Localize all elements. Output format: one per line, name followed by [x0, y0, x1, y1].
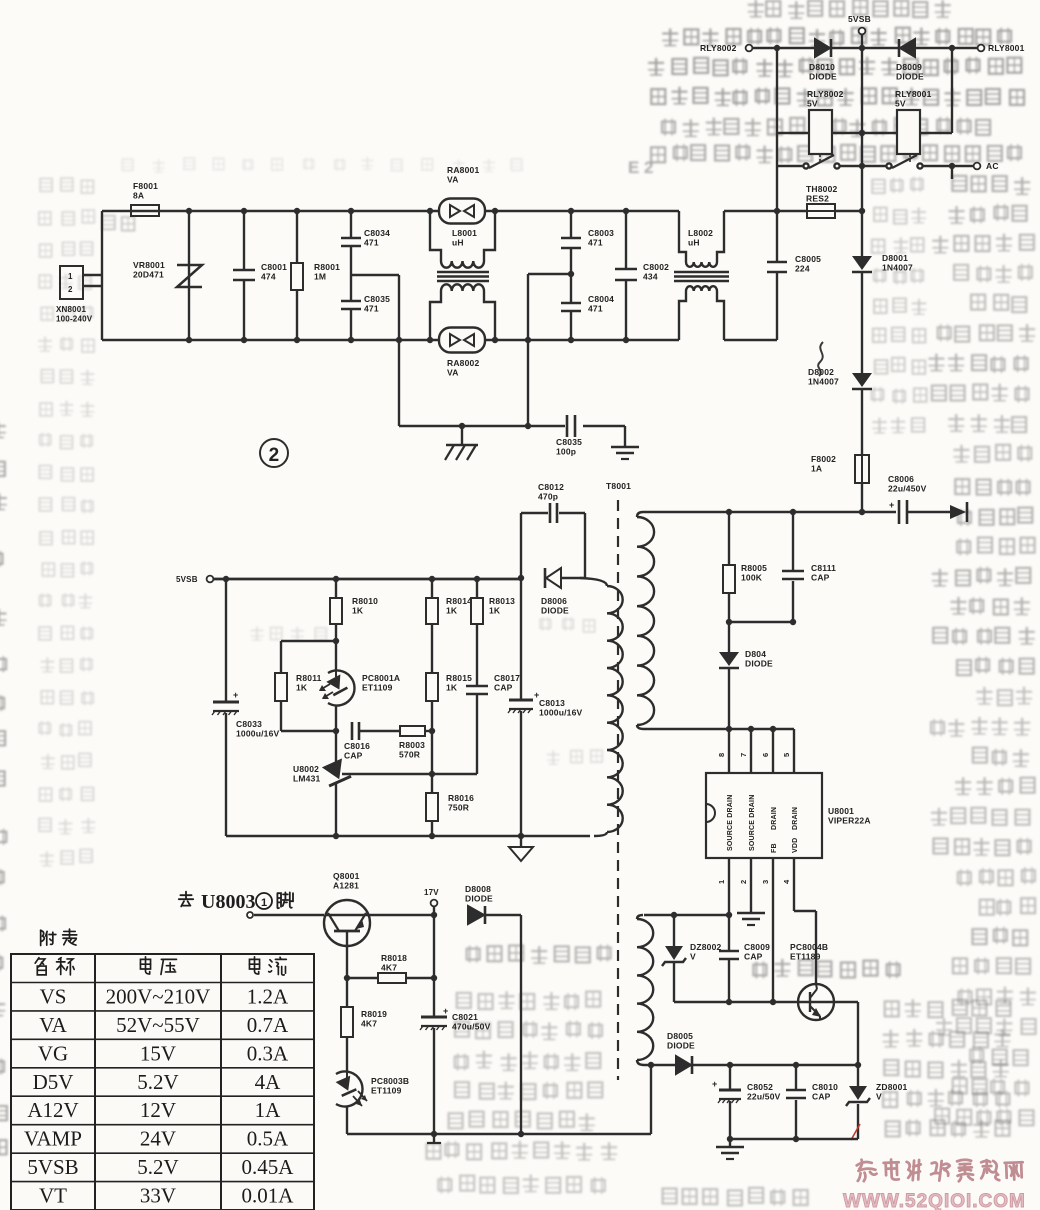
wire: aux return to low side	[650, 1065, 652, 1134]
svg-text:PC8004B: PC8004B	[790, 942, 828, 952]
ground	[729, 1139, 731, 1146]
svg-text:ET1109: ET1109	[371, 1086, 402, 1096]
svg-text:A1281: A1281	[333, 881, 359, 891]
relay contact RLY8002	[819, 154, 821, 164]
svg-text:+: +	[233, 690, 238, 700]
svg-text:U8003: U8003	[201, 891, 255, 913]
svg-text:VAMP: VAMP	[24, 1127, 82, 1151]
capacitor C8010 CAP	[795, 1065, 797, 1089]
svg-text:C8006: C8006	[888, 474, 914, 484]
svg-text:CAP: CAP	[812, 1092, 831, 1102]
svg-text:20D471: 20D471	[133, 270, 164, 280]
svg-text:DIODE: DIODE	[541, 606, 569, 616]
svg-text:C8012: C8012	[538, 482, 564, 492]
diode D8010	[815, 39, 830, 57]
svg-text:uH: uH	[688, 238, 700, 248]
wire: 5VSB vertical with rectifier chain	[861, 48, 863, 256]
svg-text:VA: VA	[39, 1013, 67, 1037]
svg-text:1: 1	[68, 272, 73, 281]
svg-text:RLY8001: RLY8001	[988, 43, 1025, 53]
svg-text:U8002: U8002	[293, 764, 319, 774]
svg-text:471: 471	[588, 238, 603, 248]
svg-text:VIPER22A: VIPER22A	[828, 816, 871, 826]
svg-text:XN8001: XN8001	[56, 305, 86, 314]
svg-text:R8011: R8011	[296, 673, 322, 683]
svg-text:D8001: D8001	[882, 253, 908, 263]
wire: secondary return to U8001 drains	[644, 728, 794, 730]
svg-text:C8017: C8017	[494, 673, 520, 683]
capacitor C8005 224	[776, 211, 778, 261]
svg-text:PC8001A: PC8001A	[362, 673, 400, 683]
svg-text:5: 5	[782, 753, 791, 757]
svg-text:470u/50V: 470u/50V	[452, 1022, 491, 1032]
capacitor C8016 CAP	[351, 722, 354, 740]
svg-text:C8003: C8003	[588, 228, 614, 238]
svg-text:1K: 1K	[296, 683, 308, 693]
common-mode choke L8002 uH	[679, 211, 686, 262]
svg-text:VA: VA	[447, 368, 459, 378]
ground at U8001 pin2	[750, 858, 752, 912]
svg-text:VR8001: VR8001	[133, 260, 165, 270]
bleedthrough faint scattered	[251, 627, 327, 641]
svg-text:RES2: RES2	[806, 194, 829, 204]
svg-text:6: 6	[761, 753, 770, 757]
label: to U8003 pin1 (Chinese)	[0, 0, 1, 1]
svg-text:1M: 1M	[314, 272, 326, 282]
wire: U8002 reference	[342, 773, 477, 775]
relay contact RLY8001	[909, 154, 911, 164]
capacitor C8034 471	[350, 211, 352, 237]
resistor R8005 100K	[728, 512, 730, 565]
bleedthrough text right column	[952, 176, 1030, 194]
svg-text:D8005: D8005	[667, 1031, 693, 1041]
resistor R8001 1M	[296, 211, 298, 263]
wire: Y-cap ground line	[399, 425, 565, 427]
capacitor C8004 471	[570, 274, 572, 302]
svg-text:C8033: C8033	[236, 719, 262, 729]
svg-text:17V: 17V	[424, 888, 439, 897]
svg-text:ET1109: ET1109	[362, 683, 393, 693]
capacitor C8111 CAP	[792, 512, 794, 570]
svg-text:SOURCE DRAIN: SOURCE DRAIN	[727, 795, 734, 851]
svg-text:0.3A: 0.3A	[247, 1041, 289, 1065]
svg-text:DIODE: DIODE	[745, 659, 773, 669]
node AC out	[974, 163, 981, 170]
relay coil RLY8001 5V	[951, 48, 953, 133]
diode D804	[719, 652, 739, 666]
svg-text:0.7A: 0.7A	[247, 1013, 289, 1037]
capacitor C8001 474	[243, 211, 245, 269]
svg-text:E 2: E 2	[628, 158, 654, 177]
svg-text:100-240V: 100-240V	[56, 315, 93, 324]
svg-text:4A: 4A	[255, 1070, 282, 1094]
diode D8005	[676, 1056, 691, 1074]
svg-text:C8035: C8035	[364, 294, 390, 304]
svg-text:DIODE: DIODE	[809, 72, 837, 82]
svg-text:RLY8002: RLY8002	[700, 43, 737, 53]
wire: aux ground rail	[730, 1138, 858, 1140]
svg-text:RA8001: RA8001	[447, 165, 479, 175]
capacitor C8052 22u/50V	[729, 1065, 731, 1089]
svg-text:AC: AC	[986, 161, 999, 171]
svg-text:uH: uH	[452, 238, 464, 248]
optocoupler PC8003B ET1109 (LED side)	[336, 1072, 363, 1107]
svg-text:100K: 100K	[741, 573, 763, 583]
svg-text:RLY8001: RLY8001	[895, 89, 932, 99]
svg-text:U8001: U8001	[828, 806, 854, 816]
svg-text:DIODE: DIODE	[465, 894, 493, 904]
svg-text:C8052: C8052	[747, 1082, 773, 1092]
svg-text:CAP: CAP	[344, 751, 363, 761]
resistor R8003 570R	[400, 726, 425, 736]
transistor Q8001 A1281	[324, 900, 370, 946]
svg-text:1K: 1K	[446, 606, 458, 616]
shunt regulator U8002 LM431	[335, 731, 337, 762]
bleedthrough text bottom right	[753, 959, 899, 978]
svg-text:2: 2	[68, 285, 73, 294]
svg-text:570R: 570R	[399, 750, 420, 760]
svg-text:0.01A: 0.01A	[242, 1184, 295, 1208]
transformer aux winding	[637, 915, 643, 919]
svg-text:224: 224	[795, 264, 810, 274]
bleedthrough text bottom middle	[467, 945, 611, 964]
svg-text:CAP: CAP	[811, 573, 830, 583]
diode D8001 1N4007	[852, 256, 872, 270]
transformer secondary winding	[637, 512, 643, 517]
capacitor C8033 1000u/16V	[225, 579, 227, 701]
capacitor C8002 434	[625, 211, 627, 268]
svg-text:200V~210V: 200V~210V	[106, 985, 211, 1009]
svg-text:R8005: R8005	[741, 563, 767, 573]
svg-text:15V: 15V	[140, 1041, 176, 1065]
svg-text:22u/50V: 22u/50V	[747, 1092, 781, 1102]
svg-text:R8003: R8003	[399, 740, 425, 750]
wire: C8003/C8004 midpoint down to Y-cap line	[528, 273, 571, 275]
table title: appendix table (Chinese)	[41, 930, 56, 945]
svg-text:SOURCE DRAIN: SOURCE DRAIN	[749, 795, 756, 851]
optocoupler PC8001A ET1109 (LED side)	[328, 671, 355, 706]
svg-text:1A: 1A	[811, 464, 822, 474]
diode D8009	[900, 39, 915, 57]
svg-text:1000u/16V: 1000u/16V	[236, 729, 280, 739]
svg-text:A12V: A12V	[27, 1098, 78, 1122]
transformer primary winding	[580, 578, 607, 586]
svg-text:5VSB: 5VSB	[27, 1155, 78, 1179]
svg-text:5VSB: 5VSB	[848, 14, 871, 24]
node terminal to U8003	[247, 912, 253, 918]
svg-text:52V~55V: 52V~55V	[116, 1013, 200, 1037]
bleedthrough faint left margin	[40, 178, 93, 193]
svg-text:C8016: C8016	[344, 741, 370, 751]
svg-text:33V: 33V	[140, 1184, 176, 1208]
resistor R8011 1K	[281, 640, 336, 642]
wire: 17V return loop	[520, 915, 522, 1134]
svg-text:DIODE: DIODE	[896, 72, 924, 82]
watermark: jiadian weixiu ziliao wang (red)	[857, 1159, 877, 1181]
squiggle mark	[818, 342, 823, 376]
varistor VR8001 20D471	[188, 211, 190, 340]
transformer T8001 core	[617, 500, 619, 1080]
svg-text:D8002: D8002	[808, 367, 834, 377]
chassis ground	[461, 426, 463, 444]
svg-text:C8001: C8001	[261, 262, 287, 272]
svg-text:1K: 1K	[446, 683, 458, 693]
resistor R8013 1K	[476, 579, 478, 598]
svg-text:VT: VT	[39, 1184, 67, 1208]
surge arrester RA8001 VA	[439, 199, 485, 224]
svg-text:471: 471	[588, 304, 603, 314]
svg-text:0.5A: 0.5A	[247, 1127, 289, 1151]
IC U8001 VIPER22A	[706, 773, 822, 858]
svg-text:WWW.52QIOI.COM: WWW.52QIOI.COM	[843, 1191, 1026, 1210]
wire: C8034/C8035 midpoint to Y-cap line	[351, 274, 399, 276]
svg-text:CAP: CAP	[744, 952, 763, 962]
wire: aux winding bottom rail	[644, 1064, 676, 1066]
svg-text:1N4007: 1N4007	[808, 377, 839, 387]
svg-text:VDD: VDD	[792, 838, 799, 853]
svg-text:R8010: R8010	[352, 596, 378, 606]
svg-text:7: 7	[739, 753, 748, 757]
svg-text:1: 1	[717, 880, 726, 884]
svg-text:4K7: 4K7	[361, 1019, 377, 1029]
wire: U8001 pin3 FB	[772, 858, 774, 1002]
earth ground	[624, 426, 626, 446]
svg-text:1000u/16V: 1000u/16V	[539, 708, 583, 718]
svg-text:D8006: D8006	[541, 596, 567, 606]
svg-text:100p: 100p	[556, 447, 576, 457]
svg-text:C8009: C8009	[744, 942, 770, 952]
surge arrester RA8002 VA	[439, 328, 485, 353]
wire: aux winding top to source	[644, 914, 729, 916]
svg-text:2: 2	[269, 445, 280, 466]
svg-text:LM431: LM431	[293, 774, 321, 784]
svg-text:PC8003B: PC8003B	[371, 1076, 409, 1086]
svg-text:471: 471	[364, 304, 379, 314]
svg-text:4: 4	[782, 879, 791, 884]
capacitor C8035 100p (line filter)	[566, 415, 569, 437]
svg-text:+: +	[889, 500, 894, 510]
svg-text:R8015: R8015	[446, 673, 472, 683]
bleedthrough cut characters left page edge	[0, 421, 6, 437]
svg-text:1: 1	[261, 897, 267, 909]
svg-text:C8034: C8034	[364, 228, 390, 238]
wire: U8001 pin1 source	[728, 858, 730, 950]
wire: U8001 pin4 VDD to optocoupler	[793, 858, 795, 911]
svg-text:DRAIN: DRAIN	[792, 807, 799, 830]
svg-text:TH8002: TH8002	[806, 184, 838, 194]
off-page arrow (to VS rail)	[950, 505, 966, 519]
wire: bottom AC rail (neutral)	[102, 339, 440, 341]
svg-text:D5V: D5V	[33, 1070, 74, 1094]
svg-text:R8001: R8001	[314, 262, 340, 272]
node RLY8001 terminal	[978, 45, 985, 52]
svg-text:D8010: D8010	[809, 62, 835, 72]
svg-text:0.45A: 0.45A	[242, 1155, 295, 1179]
svg-text:V: V	[876, 1092, 882, 1102]
zener ZD8001	[857, 1065, 859, 1086]
capacitor C8021 470u/50V	[433, 978, 435, 1016]
svg-text:ZD8001: ZD8001	[876, 1082, 908, 1092]
svg-text:C8005: C8005	[795, 254, 821, 264]
svg-text:474: 474	[261, 272, 276, 282]
svg-text:D8008: D8008	[465, 884, 491, 894]
diode D8006	[518, 575, 524, 581]
svg-text:F8002: F8002	[811, 454, 836, 464]
svg-text:C8111: C8111	[811, 563, 836, 573]
svg-text:F8001: F8001	[133, 181, 158, 191]
circled 2 figure label	[260, 439, 288, 467]
svg-text:L8001: L8001	[452, 228, 477, 238]
svg-text:ET1189: ET1189	[790, 952, 821, 962]
svg-text:T8001: T8001	[606, 481, 631, 491]
svg-text:+: +	[712, 1079, 717, 1089]
svg-text:R8018: R8018	[381, 953, 407, 963]
svg-text:1K: 1K	[352, 606, 364, 616]
resistor R8018 4K7	[344, 975, 350, 981]
svg-text:VS: VS	[40, 985, 67, 1009]
svg-text:R8013: R8013	[489, 596, 515, 606]
svg-text:C8013: C8013	[539, 698, 565, 708]
svg-text:434: 434	[643, 272, 658, 282]
svg-text:DZ8002: DZ8002	[690, 942, 722, 952]
capacitor C8035 471	[350, 275, 352, 300]
svg-text:C8035: C8035	[556, 437, 582, 447]
svg-text:Q8001: Q8001	[333, 871, 360, 881]
capacitor C8017 CAP	[466, 685, 488, 688]
svg-text:L8002: L8002	[688, 228, 713, 238]
svg-text:12V: 12V	[140, 1098, 176, 1122]
svg-text:CAP: CAP	[494, 683, 513, 693]
svg-text:R8016: R8016	[448, 793, 474, 803]
svg-text:470p: 470p	[538, 492, 558, 502]
svg-text:R8019: R8019	[361, 1009, 387, 1019]
svg-text:R8014: R8014	[446, 596, 472, 606]
bleedthrough text top-right	[748, 0, 951, 18]
wire: top AC rail (live)	[102, 210, 440, 212]
svg-text:RA8002: RA8002	[447, 358, 479, 368]
label: to U8003 pin 1 (Chinese)	[179, 892, 193, 907]
resistor R8016 750R	[431, 774, 433, 793]
svg-text:C8002: C8002	[643, 262, 669, 272]
svg-text:V: V	[690, 952, 696, 962]
relay coil RLY8002 5V	[776, 48, 778, 211]
capacitor C8013 1000u/16V	[520, 578, 522, 699]
diode D8002 1N4007	[852, 373, 872, 387]
connector XN8001 100-240V	[60, 266, 83, 299]
bleedthrough faint row top	[122, 157, 521, 173]
zener DZ8002	[673, 915, 675, 946]
wire: rectified DC rail	[643, 511, 896, 513]
svg-text:8: 8	[717, 753, 726, 757]
svg-text:8A: 8A	[133, 191, 144, 201]
svg-text:1A: 1A	[255, 1098, 282, 1122]
svg-text:5.2V: 5.2V	[137, 1070, 178, 1094]
appendix table	[11, 954, 314, 1210]
resistor R8014 1K	[431, 579, 433, 598]
capacitor C8006 22u/450V	[898, 500, 901, 524]
snubber C8012 470p over D8006	[520, 513, 522, 578]
svg-text:C8021: C8021	[452, 1012, 478, 1022]
svg-text:D8009: D8009	[896, 62, 922, 72]
fuse F8001 8A	[131, 205, 159, 216]
svg-text:1.2A: 1.2A	[247, 985, 289, 1009]
fuse F8002 1A	[855, 455, 869, 483]
wire: 5VSB return rail	[226, 835, 590, 837]
svg-text:1K: 1K	[489, 606, 501, 616]
thermistor TH8002 RES2	[807, 204, 835, 218]
diode D8008 DIODE	[468, 906, 484, 924]
resistor R8010 1K	[335, 579, 337, 598]
wire: snubber bottom	[729, 621, 793, 623]
svg-text:5V: 5V	[895, 99, 906, 109]
svg-text:5V: 5V	[807, 99, 818, 109]
svg-text:DIODE: DIODE	[667, 1041, 695, 1051]
svg-text:C8004: C8004	[588, 294, 614, 304]
svg-text:VG: VG	[38, 1041, 68, 1065]
common-mode choke L8001 uH	[430, 211, 441, 261]
svg-text:471: 471	[364, 238, 379, 248]
table header: voltage (Chinese)	[140, 957, 150, 974]
svg-text:FB: FB	[771, 843, 778, 853]
table header: name (Chinese)	[35, 958, 46, 975]
resistor R8019 4K7	[346, 978, 348, 1007]
hot ground triangle	[520, 836, 522, 847]
svg-text:DRAIN: DRAIN	[771, 807, 778, 830]
svg-text:C8010: C8010	[812, 1082, 838, 1092]
svg-text:D804: D804	[745, 649, 766, 659]
wire: FB row	[674, 1001, 858, 1003]
svg-text:750R: 750R	[448, 803, 469, 813]
svg-text:VA: VA	[447, 175, 459, 185]
table header: current (Chinese)	[249, 957, 259, 974]
svg-text:24V: 24V	[140, 1127, 176, 1151]
svg-text:3: 3	[761, 880, 770, 884]
svg-text:2: 2	[739, 880, 748, 884]
svg-text:+: +	[443, 1006, 448, 1016]
resistor R8015 1K	[426, 673, 438, 701]
capacitor C8003 471	[570, 211, 572, 237]
svg-text:4K7: 4K7	[381, 963, 397, 973]
capacitor C8009 CAP	[719, 950, 739, 953]
svg-text:5.2V: 5.2V	[137, 1155, 178, 1179]
svg-text:5VSB: 5VSB	[176, 575, 198, 584]
svg-text:22u/450V: 22u/450V	[888, 484, 927, 494]
svg-text:1N4007: 1N4007	[882, 263, 913, 273]
bleedthrough faint behind relay circuit	[872, 177, 923, 193]
svg-text:RLY8002: RLY8002	[807, 89, 844, 99]
